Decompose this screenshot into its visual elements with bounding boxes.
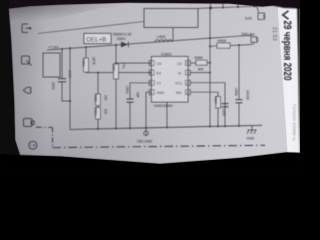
capacitor C653 bbox=[115, 45, 117, 63]
wire INV pin5 bbox=[190, 92, 218, 96]
svg-text:R653: R653 bbox=[93, 95, 97, 103]
IC pin boxes left bbox=[149, 61, 190, 95]
svg-text:21:53: 21:53 bbox=[271, 27, 277, 41]
ground OELGND bbox=[144, 131, 149, 136]
svg-text:8: 8 bbox=[186, 62, 188, 66]
photo paper area bbox=[9, 3, 301, 165]
svg-text:R657: R657 bbox=[213, 97, 217, 105]
svg-text:2: 2 bbox=[150, 71, 152, 75]
capacitor C855 bbox=[222, 103, 229, 105]
node W1-Vleft bbox=[69, 47, 71, 49]
resistor R654 bbox=[97, 106, 99, 108]
node pin2-R653 bbox=[97, 72, 99, 74]
svg-text:820: 820 bbox=[198, 67, 204, 71]
svg-text:17U: 17U bbox=[122, 63, 126, 70]
svg-text:7: 7 bbox=[186, 71, 188, 75]
svg-text:47/25: 47/25 bbox=[68, 70, 72, 78]
black backdrop bbox=[0, 0, 300, 169]
svg-text:R656: R656 bbox=[218, 39, 227, 43]
svg-text:6: 6 bbox=[186, 81, 188, 85]
svg-text:VCC: VCC bbox=[175, 82, 183, 86]
label OEL+B bbox=[84, 34, 111, 44]
svg-text:CS: CS bbox=[157, 62, 162, 66]
svg-text:INV: INV bbox=[176, 91, 182, 95]
svg-text:CT: CT bbox=[157, 82, 162, 86]
svg-text:IC651: IC651 bbox=[161, 51, 172, 56]
resistor R656 bbox=[217, 43, 230, 48]
svg-text:C856: C856 bbox=[234, 88, 238, 96]
svg-text:150: 150 bbox=[104, 95, 108, 101]
svg-text:100/16: 100/16 bbox=[245, 90, 249, 100]
node W1-R651 bbox=[85, 46, 87, 48]
info icon bbox=[29, 141, 37, 149]
back chevron bbox=[283, 11, 289, 19]
node W1-C652 bbox=[61, 48, 63, 50]
svg-text:L652: L652 bbox=[157, 35, 165, 39]
svg-text:OELGND: OELGND bbox=[137, 140, 153, 144]
svg-text:100: 100 bbox=[104, 109, 108, 115]
page border dash-dot bbox=[36, 127, 265, 147]
nodes on W3 bbox=[97, 128, 99, 130]
resistor R653 bbox=[97, 73, 99, 94]
wire module feed to W1 bbox=[172, 28, 174, 41]
svg-text:ILM: ILM bbox=[245, 16, 252, 21]
svg-text:DEL9V: DEL9V bbox=[242, 32, 255, 37]
svg-text:13: 13 bbox=[262, 14, 266, 18]
wire W1 main rail bbox=[47, 35, 252, 50]
connector pin ILM 13 bbox=[258, 13, 265, 20]
wire W3 bottom rail bbox=[70, 125, 262, 129]
wire V210 bbox=[209, 8, 211, 127]
svg-text:Галерея знімків щ: Галерея знімків щ bbox=[292, 104, 297, 141]
capacitor C856 100/16 bbox=[238, 45, 240, 99]
svg-text:R654: R654 bbox=[93, 108, 97, 116]
edit icon bbox=[22, 56, 30, 64]
svg-text:GND: GND bbox=[157, 91, 165, 95]
inductor L652 bbox=[155, 40, 172, 43]
delete icon bbox=[24, 119, 33, 127]
gallery UI icons left bbox=[22, 24, 37, 149]
svg-text:R651: R651 bbox=[81, 59, 85, 67]
svg-text:C855: C855 bbox=[222, 109, 226, 117]
ground chassis GND bbox=[251, 126, 253, 131]
svg-text:SI: SI bbox=[178, 71, 181, 75]
node pin1-C653 bbox=[115, 62, 117, 64]
left column shading bbox=[9, 6, 47, 158]
capacitor C854 33P bbox=[129, 83, 131, 99]
svg-text:2R7K: 2R7K bbox=[92, 57, 96, 66]
wire V-left bbox=[69, 48, 71, 129]
IC651 body bbox=[152, 57, 189, 103]
svg-text:29 червня 2020: 29 червня 2020 bbox=[281, 21, 293, 81]
wire CT pin3 bbox=[130, 82, 152, 84]
resistor R651 bbox=[85, 47, 87, 58]
wire IC bottom drop bbox=[166, 102, 168, 127]
black frame on top bbox=[0, 0, 300, 169]
node W2-V239 bbox=[238, 44, 240, 46]
wire ES pin2 bbox=[86, 72, 152, 74]
connector box left bbox=[43, 53, 60, 77]
svg-text:OEL+B: OEL+B bbox=[86, 36, 106, 43]
svg-text:4: 4 bbox=[150, 91, 152, 95]
svg-text:33P: 33P bbox=[136, 92, 140, 98]
svg-text:C653: C653 bbox=[111, 64, 115, 72]
diode D651 bbox=[121, 42, 128, 48]
svg-text:ES: ES bbox=[157, 71, 162, 75]
white UI strip right bbox=[278, 5, 301, 153]
pin stubs up bbox=[209, 3, 211, 9]
svg-text:5: 5 bbox=[186, 91, 188, 95]
capacitor C652 bbox=[61, 49, 63, 79]
svg-text:R655: R655 bbox=[195, 56, 203, 60]
wire SI pin7 bbox=[190, 72, 210, 74]
wire CS pin1 bbox=[116, 62, 152, 64]
svg-text:17: 17 bbox=[255, 38, 259, 42]
svg-text:GND: GND bbox=[247, 136, 255, 140]
resistor R657 bbox=[216, 97, 221, 109]
share icon bbox=[22, 24, 28, 33]
UI strip content bbox=[271, 11, 297, 141]
wire W2 bbox=[210, 45, 253, 47]
svg-text:C854: C854 bbox=[125, 86, 129, 94]
node W1-C653 bbox=[115, 44, 117, 46]
wire top feed bbox=[38, 22, 144, 34]
svg-text:NJM2360M: NJM2360M bbox=[154, 104, 172, 108]
wire W0 top rail bbox=[198, 6, 259, 12]
node W0 junctions bbox=[209, 7, 212, 10]
IC pin numbers and names bbox=[150, 62, 188, 95]
resistor R655 820 bbox=[190, 62, 196, 64]
module box U? top bbox=[144, 9, 198, 28]
svg-text:CD: CD bbox=[177, 62, 182, 66]
svg-text:3: 3 bbox=[150, 81, 152, 85]
node W1-V210 bbox=[209, 37, 211, 39]
svg-text:D651: D651 bbox=[117, 37, 126, 41]
wire GND pin4 bbox=[146, 92, 152, 128]
svg-text:+7.6V: +7.6V bbox=[48, 45, 59, 50]
favorite heart icon bbox=[23, 87, 31, 93]
node W2-V210 bbox=[209, 45, 211, 47]
wire VCC pin6 bbox=[190, 83, 225, 127]
svg-text:1: 1 bbox=[150, 62, 152, 66]
svg-text:C652: C652 bbox=[51, 82, 55, 90]
